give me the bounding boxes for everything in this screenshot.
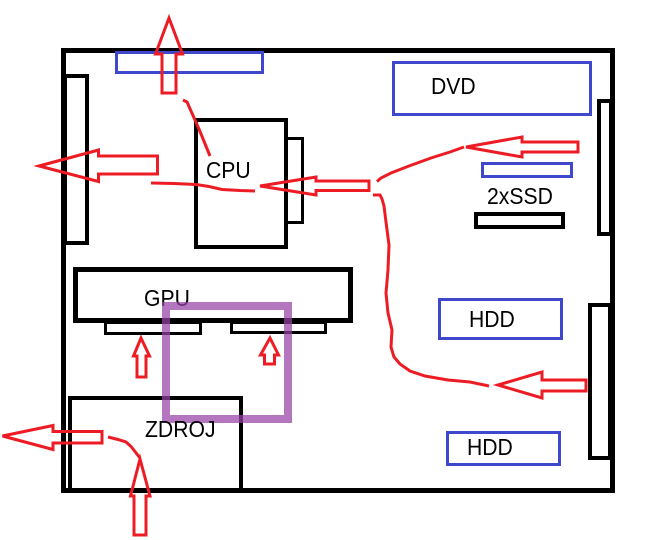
right bay rect bottom — [588, 303, 612, 460]
HDD bottom (blue) — [446, 431, 561, 466]
label DVD — [431, 75, 476, 98]
label 2xSSD — [487, 185, 553, 208]
arrow up under GPU right — [261, 338, 279, 364]
label HDD bottom — [467, 436, 513, 459]
DVD drive (blue) — [392, 61, 592, 116]
arrow left out of PSU — [3, 426, 103, 450]
arrow up into PSU from below — [131, 459, 151, 535]
label ZDROJ — [145, 418, 216, 441]
arrow left into CPU — [260, 177, 369, 195]
arrow left below DVD — [466, 137, 578, 157]
wire CPU to top arrow — [183, 100, 210, 156]
case outline — [61, 48, 615, 493]
wire across CPU — [151, 183, 255, 191]
right bay rect top — [597, 99, 613, 236]
purple highlight square — [162, 302, 292, 423]
HDD top (blue) — [438, 298, 563, 340]
top fan (blue) — [115, 51, 264, 74]
GPU mount rect left — [104, 321, 202, 335]
wire long S-curve lower — [373, 195, 489, 386]
arrow left mid-left (rear exhaust) — [39, 150, 158, 182]
wire long S-curve upper — [377, 147, 464, 182]
label HDD top — [469, 308, 515, 331]
CPU side rect — [285, 137, 304, 224]
ZDROJ box (PSU) — [68, 396, 243, 492]
wire PSU arrow to bottom arrow — [108, 437, 140, 458]
arrow left into HDD bay — [498, 372, 586, 398]
SSD rect (blue) — [481, 162, 573, 178]
arrow up under GPU left — [134, 338, 150, 377]
label CPU — [206, 159, 251, 182]
CPU box — [194, 118, 288, 249]
SSD rect (black) — [474, 212, 565, 229]
arrow up through top fan — [156, 18, 183, 93]
GPU mount rect right — [230, 321, 327, 334]
label GPU — [144, 287, 190, 310]
front fan left rect — [63, 74, 89, 245]
GPU box — [73, 267, 353, 323]
